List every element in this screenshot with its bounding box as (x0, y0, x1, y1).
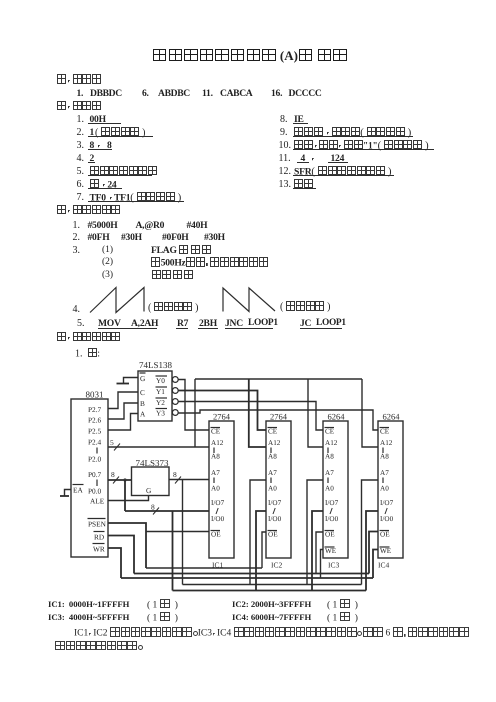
IC4 pin CE (380, 428, 390, 436)
bus A7-A0 drop to bottom rail (182, 480, 184, 585)
svg-text:A12: A12 (211, 439, 224, 447)
inverter bubble Y2 (172, 399, 178, 405)
wire PSEN bottom rail (146, 567, 262, 569)
pin B of 74LS138 (140, 399, 145, 408)
IC1 pin I/O7 (211, 499, 225, 507)
svg-text:CE: CE (268, 428, 278, 436)
pin gap mark P0 (96, 480, 98, 487)
bus A12-A8 drop to IC3 (308, 379, 323, 447)
pin P2.5 (88, 427, 102, 436)
wire Y2 to IC3 CE (178, 402, 323, 431)
sec 1 (57, 74, 101, 85)
ground at 138 G (117, 383, 130, 385)
svg-text:WR: WR (93, 545, 105, 554)
svg-text:RD: RD (94, 533, 104, 542)
wire ALE to 373 G (108, 496, 149, 501)
wire WR run (108, 548, 121, 578)
svg-text:6264: 6264 (383, 412, 401, 422)
wire PSEN riser IC2 OE (262, 532, 266, 568)
bus P0 from 8031 to 373 (108, 479, 132, 481)
svg-text:ALE: ALE (90, 497, 105, 506)
IC2 pin I/O7 (268, 499, 282, 507)
IC2 pin gap A7-A0 (270, 478, 272, 484)
pin A of 74LS138 (140, 410, 146, 419)
IC3 pin OE (325, 531, 336, 539)
svg-text:CE: CE (380, 428, 390, 436)
sec 2 (57, 101, 101, 112)
pin P2.4 (88, 438, 102, 447)
IC3 pin A8 (325, 453, 334, 461)
pin Y3 of 74LS138 (156, 409, 168, 418)
IC4 pin WE (380, 547, 392, 555)
pin WR (93, 544, 105, 554)
wire RD bottom rail (134, 573, 369, 575)
EPROM IC1 2764 (209, 412, 234, 570)
bus data drop from P0 node (124, 480, 126, 511)
svg-text:P2.7: P2.7 (88, 405, 102, 414)
svg-text:G: G (140, 374, 146, 383)
bus data riser IC2 (256, 511, 266, 591)
svg-text:P2.4: P2.4 (88, 438, 102, 447)
IC2 pin gap A12-A8 (270, 448, 272, 454)
IC4 pin I/O7 (380, 499, 394, 507)
wire WR bottom rail (121, 577, 373, 579)
svg-text:P0.7: P0.7 (88, 470, 102, 479)
svg-text:A0: A0 (268, 485, 277, 493)
IC2 pin I/O0 (268, 515, 282, 523)
svg-text:A8: A8 (380, 453, 389, 461)
IC1 pin A8 (211, 453, 220, 461)
IC2 pin A8 (268, 453, 277, 461)
svg-text:2764: 2764 (213, 412, 231, 422)
wire P2.7 to C (108, 392, 138, 409)
pin C of 74LS138 (140, 388, 145, 397)
pin P2.6 (88, 416, 102, 425)
IC2 pin A7 (268, 469, 277, 477)
svg-text:A: A (140, 410, 146, 419)
svg-text:2764: 2764 (270, 412, 288, 422)
pin RD (94, 532, 105, 542)
bus slash 5 (110, 438, 120, 451)
IC3 pin I/O0 (325, 515, 339, 523)
svg-text:Y1: Y1 (156, 387, 165, 396)
sec 4 (57, 332, 121, 343)
wire Y1 to IC2 CE (178, 391, 266, 431)
IC3 pin CE (325, 428, 335, 436)
bus A12-A8 top rail (195, 378, 362, 380)
title (152, 49, 348, 62)
svg-text:A8: A8 (325, 453, 334, 461)
svg-text:74LS373: 74LS373 (136, 458, 170, 468)
RAM IC3 6264 (323, 412, 348, 570)
svg-text:CE: CE (325, 428, 335, 436)
svg-text:OE: OE (268, 531, 278, 539)
IC4 pin A0 (380, 485, 389, 493)
svg-text:C: C (140, 388, 145, 397)
svg-text:A7: A7 (380, 469, 389, 477)
svg-text:A0: A0 (211, 485, 220, 493)
wire RD run (108, 536, 134, 574)
pin P0.0 (88, 487, 102, 496)
svg-text:OE: OE (380, 531, 390, 539)
svg-text:A12: A12 (380, 439, 393, 447)
IC4 pin A8 (380, 453, 389, 461)
bus data drop to bottom rail (172, 511, 174, 591)
bus data riser IC3 (312, 511, 323, 591)
svg-text:A0: A0 (380, 485, 389, 493)
IC1 pin A12 (211, 439, 224, 447)
IC3 pin A12 (325, 439, 338, 447)
svg-text:I/O0: I/O0 (211, 515, 225, 523)
bus A7-A0 riser IC2 (250, 480, 266, 585)
svg-text:Y0: Y0 (156, 376, 165, 385)
svg-text:G: G (146, 486, 152, 495)
IC4 pin gap I/O (385, 508, 387, 514)
svg-text:A7: A7 (211, 469, 220, 477)
bus A7-A0 bottom rail (183, 584, 362, 586)
svg-text:WE: WE (325, 547, 337, 555)
svg-text:P2.0: P2.0 (88, 455, 102, 464)
fill col1 (77, 114, 85, 125)
svg-text:Y2: Y2 (156, 398, 165, 407)
latch U2 74LS373 (132, 458, 170, 496)
bottom address lines (48, 599, 129, 610)
svg-text:A8: A8 (211, 453, 220, 461)
RAM IC4 6264 (378, 412, 403, 570)
svg-text:P0.0: P0.0 (88, 487, 102, 496)
inverter bubble Y3 (172, 410, 178, 416)
pin gap mark P2 (96, 448, 98, 454)
IC3 pin gap A12-A8 (327, 448, 329, 454)
IC1 pin gap A12-A8 (213, 448, 215, 454)
IC1 pin gap I/O (216, 508, 218, 514)
sec 3 (57, 205, 121, 216)
svg-text:I/O0: I/O0 (380, 515, 394, 523)
svg-text:A12: A12 (268, 439, 281, 447)
svg-text:PSEN: PSEN (88, 520, 107, 529)
svg-text:A0: A0 (325, 485, 334, 493)
pin PSEN (88, 519, 107, 529)
inverter bubble Y0 (172, 377, 178, 383)
waveform positive sawtooth (90, 288, 144, 313)
fill col2 (280, 114, 288, 125)
IC4 pin I/O0 (380, 515, 394, 523)
svg-text:8: 8 (111, 470, 115, 479)
svg-text:6264: 6264 (328, 412, 346, 422)
IC4 pin A12 (380, 439, 393, 447)
IC4 pin gap A12-A8 (382, 448, 384, 454)
bus data riser IC4 (366, 511, 378, 591)
IC2 pin OE (268, 531, 279, 539)
bus data bottom rail (173, 590, 367, 592)
svg-text:P2.5: P2.5 (88, 427, 102, 436)
wire G of 138 to ground (124, 378, 139, 384)
inverter bubble Y1 (172, 388, 178, 394)
svg-text:5: 5 (110, 438, 114, 447)
svg-text:CE: CE (211, 428, 221, 436)
wire PSEN run (108, 523, 146, 568)
bus slash 8 at 373 out (173, 470, 181, 484)
svg-text:EA: EA (73, 486, 83, 495)
svg-text:8: 8 (151, 503, 155, 512)
pin Y1 of 74LS138 (156, 387, 168, 396)
wire RD riser IC4 OE (369, 532, 378, 574)
pin ALE (90, 497, 105, 506)
bus data to IC1 I/O (125, 510, 209, 512)
bus A7-A0 riser IC4 (362, 480, 379, 585)
bus A7-A0 riser IC3 (307, 480, 323, 585)
svg-text:I/O0: I/O0 (325, 515, 339, 523)
IC2 pin A0 (268, 485, 277, 493)
EPROM IC2 2764 (266, 412, 291, 570)
svg-text:I/O7: I/O7 (380, 499, 394, 507)
svg-text:8031: 8031 (86, 390, 104, 400)
IC3 pin gap I/O (330, 508, 332, 514)
wire WR riser IC4 WE (373, 550, 378, 579)
svg-text:A7: A7 (268, 469, 277, 477)
IC3 pin I/O7 (325, 499, 339, 507)
IC3 pin gap A7-A0 (327, 478, 329, 484)
wire P2.6 to B (108, 403, 138, 419)
svg-text:B: B (140, 399, 145, 408)
pin P2.7 (88, 405, 102, 414)
IC1 pin CE (211, 428, 221, 436)
pin Y2 of 74LS138 (156, 398, 168, 407)
svg-text:I/O7: I/O7 (268, 499, 282, 507)
wire EA to ground (65, 490, 72, 497)
waveform negative sawtooth (223, 288, 275, 312)
pin G of 74LS373 (146, 486, 152, 495)
IC3 pin A7 (325, 469, 334, 477)
wire Y3 to IC4 CE (178, 410, 378, 430)
svg-text:I/O0: I/O0 (268, 515, 282, 523)
pin P2.0 (88, 455, 102, 464)
IC1 pin A7 (211, 469, 220, 477)
bus slash 8 at P0 (111, 470, 119, 484)
junction P0 node (123, 478, 126, 481)
svg-text:OE: OE (325, 531, 335, 539)
svg-text:I/O7: I/O7 (325, 499, 339, 507)
bus A12-A8 drop to IC2 (249, 379, 266, 447)
bus A12-A8 from P2 to IC1 (108, 446, 209, 448)
pin EA (73, 485, 84, 495)
IC2 pin A12 (268, 439, 281, 447)
bus slash 8 at data (151, 503, 159, 515)
svg-text:IC3: IC3 (328, 561, 340, 570)
svg-text:I/O7: I/O7 (211, 499, 225, 507)
svg-text:A8: A8 (268, 453, 277, 461)
wire WR riser IC3 WE (321, 550, 324, 579)
wire Y0 to IC1 CE (178, 380, 209, 431)
IC1 pin OE (211, 531, 222, 539)
svg-text:IC4: IC4 (378, 561, 390, 570)
svg-text:P2.6: P2.6 (88, 416, 102, 425)
pin P0.7 (88, 470, 102, 479)
IC3 pin WE (325, 547, 337, 555)
wire P2.5 to A (108, 414, 138, 431)
IC1 pin A0 (211, 485, 220, 493)
svg-text:A7: A7 (325, 469, 334, 477)
IC1 pin I/O0 (211, 515, 225, 523)
svg-text:IC1: IC1 (212, 561, 224, 570)
svg-text:8: 8 (173, 470, 177, 479)
IC1 pin gap A7-A0 (213, 478, 215, 484)
ground at EA (60, 495, 69, 497)
bus A12-A8 drop to IC4 (362, 379, 378, 447)
IC4 pin gap A7-A0 (382, 478, 384, 484)
IC2 pin CE (268, 428, 278, 436)
svg-text:WE: WE (380, 547, 392, 555)
MCU U3 8031 (71, 390, 108, 558)
wire PSEN to IC1 OE (146, 531, 209, 533)
pin G of 74LS138 (140, 373, 147, 383)
svg-text:A12: A12 (325, 439, 338, 447)
svg-text:74LS138: 74LS138 (139, 360, 173, 370)
IC4 pin OE (380, 531, 391, 539)
line 5 (77, 318, 85, 329)
bus A12-A8 riser to top rail (194, 379, 196, 447)
pin Y0 of 74LS138 (156, 376, 168, 385)
IC3 pin A0 (325, 485, 334, 493)
svg-text:Y3: Y3 (156, 409, 165, 418)
svg-text:OE: OE (211, 531, 221, 539)
IC4 pin A7 (380, 469, 389, 477)
wire RD riser IC3 OE (316, 532, 323, 574)
IC2 pin gap I/O (273, 508, 275, 514)
decoder U1 74LS138 (138, 360, 173, 421)
bus A7-A0 from 373 to IC1 (169, 479, 209, 481)
svg-text:IC2: IC2 (271, 561, 283, 570)
